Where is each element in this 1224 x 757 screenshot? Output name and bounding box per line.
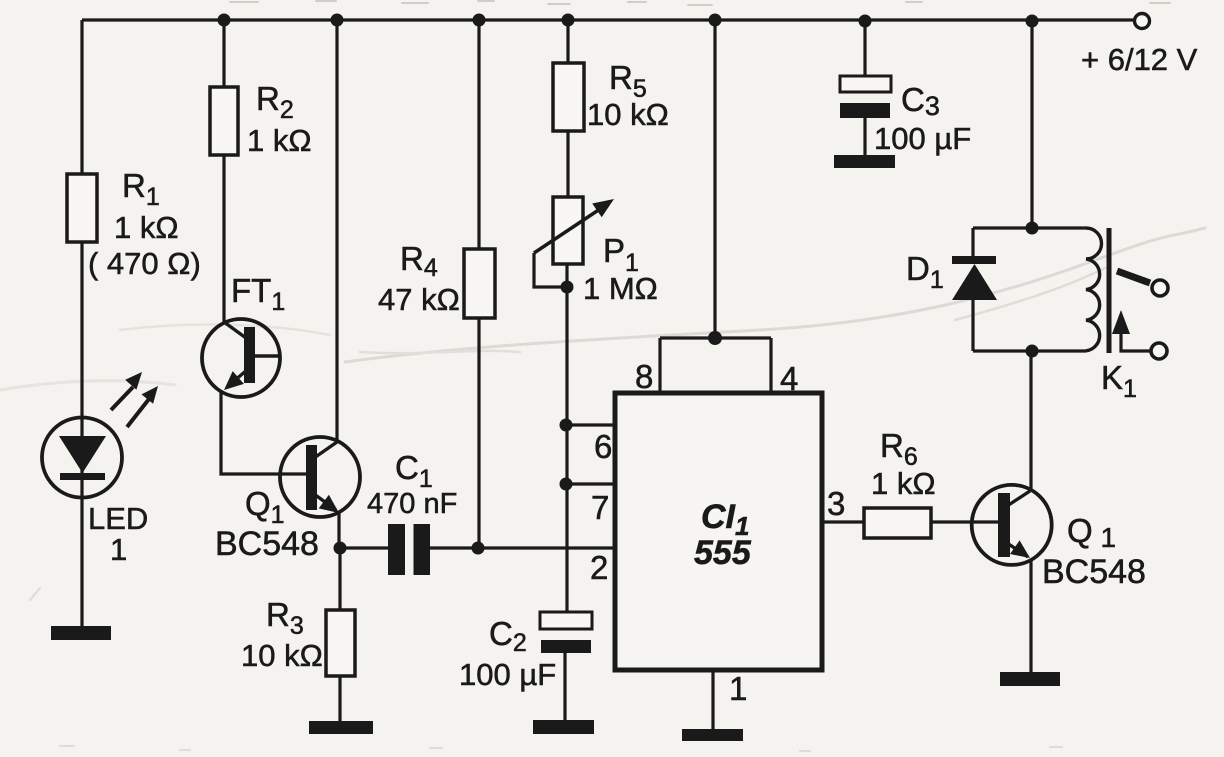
wire 555 pin 4 stub (769, 338, 772, 394)
svg-text:R6: R6 (880, 427, 918, 471)
svg-text:6: 6 (594, 428, 612, 465)
svg-text:LED: LED (88, 501, 148, 536)
svg-text:1 kΩ: 1 kΩ (114, 210, 179, 245)
wire C3 to ground (863, 118, 866, 156)
node rail-R4 (473, 14, 486, 27)
svg-text:1: 1 (729, 670, 747, 707)
wire node to C1 (340, 546, 388, 549)
wire relay top (973, 226, 1086, 229)
node rail-C3 (859, 15, 872, 28)
wire rail to relay node (1030, 22, 1033, 228)
wire rail to C3 (863, 22, 866, 76)
ground (R3) (309, 721, 373, 734)
LED light arrows (111, 372, 158, 427)
wire 555 pin 1 to ground (711, 670, 714, 729)
potentiometer P1 arrow (534, 199, 614, 253)
wire rail to R5 (566, 21, 569, 63)
wire R3 to ground (338, 676, 341, 722)
wire R4 to node (477, 318, 480, 548)
svg-text:R3: R3 (266, 596, 304, 640)
svg-text:R4: R4 (400, 240, 438, 282)
wire FT1 emitter to Q1 base (221, 390, 307, 474)
wire D1 top lead (971, 228, 974, 257)
wire R6 to Q2 base (931, 520, 999, 523)
wire R5 to P1 (566, 131, 569, 197)
capacitor C3 (840, 76, 891, 118)
svg-text:1 MΩ: 1 MΩ (583, 271, 658, 306)
wire Q1 emitter to node (337, 512, 340, 548)
svg-text:1: 1 (110, 532, 127, 567)
wire relay node to Q2 collector (1029, 351, 1032, 491)
ground (Q2) (1000, 672, 1060, 686)
resistor R6 (864, 508, 931, 538)
node R4 junction (472, 542, 485, 555)
potentiometer P1 body (553, 197, 583, 264)
svg-text:( 470 Ω): ( 470 Ω) (88, 246, 201, 281)
svg-text:3: 3 (827, 485, 845, 522)
svg-text:R2: R2 (256, 80, 294, 124)
svg-text:2: 2 (590, 549, 608, 586)
terminal +V (1135, 14, 1150, 29)
node relay bottom (1026, 345, 1039, 358)
node rail-R2 (218, 14, 231, 27)
wire C1 to 555 pin 2 (430, 546, 616, 549)
svg-text:100 µF: 100 µF (874, 121, 971, 156)
wire rail to R4 (477, 21, 480, 249)
svg-text:C2: C2 (489, 615, 527, 657)
wire P1 down to C2 (565, 264, 568, 612)
ground (C3) (834, 155, 895, 168)
resistor R3 (326, 610, 355, 676)
ground (555 pin 1) (682, 729, 743, 741)
svg-text:100 µF: 100 µF (459, 657, 556, 692)
LED LED1 (42, 418, 122, 498)
wire tap to 555 pin 6 (566, 423, 616, 426)
capacitor C1 (388, 524, 430, 575)
svg-text:1 kΩ: 1 kΩ (871, 466, 936, 501)
resistor R4 (464, 249, 495, 318)
svg-text:10 kΩ: 10 kΩ (241, 638, 323, 673)
diode D1 (952, 256, 997, 300)
relay K1 core bar (1107, 228, 1112, 353)
node pin 7 tap (560, 478, 573, 491)
svg-text:FT1: FT1 (231, 272, 285, 316)
wire pins 8-4 bridge (660, 336, 771, 339)
svg-text:10 kΩ: 10 kΩ (587, 97, 669, 132)
svg-text:4: 4 (780, 360, 798, 397)
capacitor C2 (540, 612, 592, 653)
wire C2 to ground (563, 653, 566, 721)
node pins 8-4 (708, 331, 722, 345)
relay contact circle lower (1151, 343, 1167, 359)
svg-text:R1: R1 (122, 167, 160, 211)
resistor R1 (67, 174, 97, 242)
wire D1 bottom lead (971, 299, 974, 351)
wire relay bottom (973, 349, 1086, 352)
node rail-R5 (562, 14, 575, 27)
wire P1 wiper return (534, 253, 567, 287)
resistor R5 (553, 63, 584, 131)
svg-text:+ 6/12 V: + 6/12 V (1081, 42, 1198, 77)
wire tap to 555 pin 7 (566, 482, 616, 485)
node rail-K1 (1026, 15, 1039, 28)
node Q1 emitter junction (334, 542, 347, 555)
node relay top (1026, 222, 1039, 235)
svg-text:BC548: BC548 (1042, 553, 1146, 591)
phototransistor FT1 (202, 319, 280, 397)
wire 555 pin 3 to R6 (822, 520, 864, 523)
svg-text:Q 1: Q 1 (1067, 512, 1116, 553)
relay contact circle upper (1152, 280, 1168, 296)
svg-text:BC548: BC548 (215, 525, 319, 563)
svg-text:470 nF: 470 nF (367, 488, 457, 520)
wire rail to Q1 collector (335, 20, 338, 441)
svg-text:7: 7 (591, 489, 609, 526)
relay K1 switch blade (1117, 271, 1150, 283)
node rail-555 (709, 14, 722, 27)
wire Q2 emitter to ground (1029, 560, 1032, 673)
svg-text:555: 555 (694, 534, 752, 572)
svg-text:1 kΩ: 1 kΩ (247, 123, 312, 158)
svg-text:8: 8 (635, 358, 653, 395)
svg-text:47 kΩ: 47 kΩ (378, 282, 460, 317)
relay K1 coil (1086, 228, 1102, 351)
relay K1 switch arrow (1112, 310, 1130, 334)
resistor R2 (210, 87, 238, 155)
wire 555 pin 8 stub (658, 338, 661, 394)
transistor Q2 (972, 485, 1052, 565)
svg-text:D1: D1 (906, 250, 944, 294)
wire bridge to rail (713, 21, 716, 338)
wire +V top rail (82, 18, 1135, 21)
wire R1 to LED to ground (80, 242, 83, 628)
node pin 6 tap (560, 419, 573, 432)
transistor Q1 (280, 437, 360, 517)
node rail-Q1 (331, 14, 344, 27)
wire node to R3 (338, 548, 341, 610)
wire R2 to FT1 collector (222, 155, 225, 322)
svg-text:Q1: Q1 (245, 485, 285, 529)
wire R1 branch from rail (80, 20, 83, 174)
wire R2 branch from rail (222, 20, 225, 87)
svg-text:K1: K1 (1101, 359, 1137, 403)
wire switch contact L (1121, 330, 1150, 351)
ground (LED) (51, 626, 111, 640)
svg-text:C1: C1 (395, 449, 433, 493)
node P1 wiper junction (561, 281, 574, 294)
IC CI1 555 (615, 393, 822, 670)
ground (C2) (533, 720, 594, 734)
svg-text:C3: C3 (901, 81, 940, 121)
